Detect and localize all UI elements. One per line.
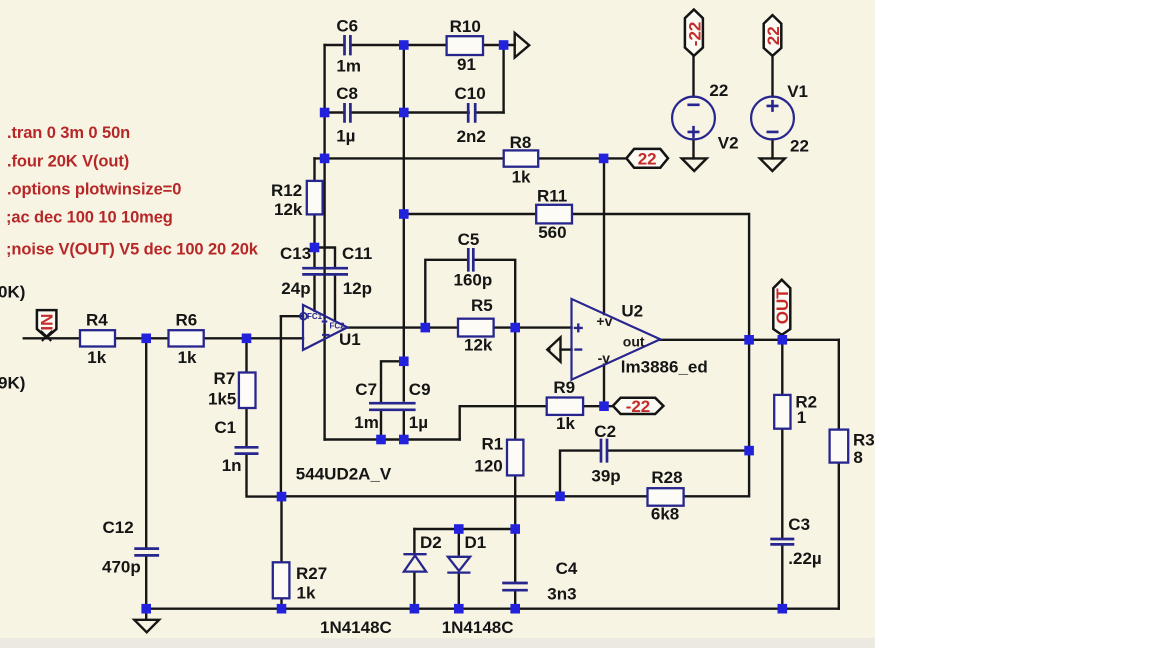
resistor R1 <box>507 440 523 476</box>
svg-text:1N4148C: 1N4148C <box>320 618 392 637</box>
capacitor C6 <box>345 35 351 55</box>
svg-text:C11: C11 <box>342 244 372 263</box>
junction bottom rail D2 <box>410 604 420 614</box>
svg-text:-v: -v <box>598 350 611 366</box>
wire D1 top stub <box>458 529 460 554</box>
net flag -22 above V2 <box>685 10 703 56</box>
svg-text:120: 120 <box>474 457 502 476</box>
wire top rail C6 left <box>325 44 345 46</box>
svg-text:R1: R1 <box>482 434 504 453</box>
wire R2 top stub <box>781 340 783 395</box>
wire elbow junction to C11 top <box>315 248 336 267</box>
svg-text:R4: R4 <box>86 311 108 330</box>
svg-text:12k: 12k <box>274 200 303 219</box>
ground bottom left <box>134 620 159 633</box>
svg-text:R7: R7 <box>214 369 236 388</box>
wire R9 right to flag <box>583 405 613 407</box>
svg-text:C5: C5 <box>458 230 480 249</box>
op-amp U1 544UD2A_V triangle <box>303 305 347 350</box>
svg-text:D2: D2 <box>420 533 442 552</box>
svg-text:U2: U2 <box>621 302 643 321</box>
capacitor C1 <box>235 447 259 453</box>
wire input to R4 <box>24 337 80 339</box>
junction C1 R27 feedback <box>277 492 287 502</box>
op-amp U2 lm3886_ed triangle <box>572 299 661 380</box>
wire U2 minus input stub <box>561 348 572 350</box>
capacitor C4 <box>502 583 528 590</box>
wire R5 to U2 plus input <box>493 326 571 328</box>
wire U1 upper input stub <box>281 315 303 317</box>
junction bottom rail C12 <box>141 604 151 614</box>
junction U1 out C5 left <box>421 323 431 333</box>
svg-text:R28: R28 <box>651 468 682 487</box>
arrow net marker right of R10 <box>515 33 530 58</box>
svg-text:160p: 160p <box>454 270 493 289</box>
junction R12 bottom C13 C11 <box>310 243 320 253</box>
junction C8 right <box>399 108 409 118</box>
wire R7 top stub <box>245 338 247 372</box>
junction bottom rail R27 <box>277 604 287 614</box>
wire R8 left segment <box>315 157 504 159</box>
svg-text:OUT: OUT <box>773 288 792 325</box>
wire R7 to C1 <box>245 408 247 447</box>
svg-text:R12: R12 <box>271 181 302 200</box>
wire diode top rail y=529 <box>414 528 515 530</box>
diode D1 1N4148C pointing down <box>448 557 470 571</box>
wire bottom bracket y=439.5 <box>325 438 460 440</box>
svg-text:D1: D1 <box>465 533 487 552</box>
wire C12 bottom lead <box>145 556 147 609</box>
wire elbow C10 right up <box>502 45 504 113</box>
wire C11 bottom lead <box>334 276 336 321</box>
junction C2 right R28 <box>744 446 754 456</box>
capacitor C9 <box>393 403 416 410</box>
svg-text:out: out <box>623 333 645 349</box>
wire R6 to U1 lower input <box>204 337 303 339</box>
svg-text:1: 1 <box>797 408 806 427</box>
svg-text:C6: C6 <box>336 16 358 35</box>
svg-text:22: 22 <box>764 26 783 45</box>
capacitor C7 <box>369 403 393 410</box>
svg-text:39p: 39p <box>591 467 620 486</box>
svg-text:IN: IN <box>37 314 56 331</box>
net flag IN <box>37 310 57 337</box>
svg-text:C1: C1 <box>214 418 236 437</box>
wire C5 left bracket <box>425 260 467 328</box>
junction R5 right C5 R1 <box>510 323 520 333</box>
wire R12 top stub <box>313 158 315 181</box>
wire U2 output <box>660 339 839 341</box>
svg-text:1µ: 1µ <box>336 127 355 146</box>
svg-text:C13: C13 <box>280 244 311 263</box>
wire C5 right bracket <box>474 260 515 328</box>
svg-text:V1: V1 <box>787 82 808 101</box>
wire C7 top elbow <box>381 361 404 402</box>
svg-text:.22µ: .22µ <box>788 549 821 568</box>
wire D2 bottom lead <box>413 572 415 609</box>
junction bottom rail D1 <box>454 604 464 614</box>
svg-text:R11: R11 <box>537 186 567 205</box>
junction C7 C9 top <box>399 357 409 367</box>
svg-text:R27: R27 <box>296 564 327 583</box>
svg-text:U1: U1 <box>339 330 361 349</box>
svg-text:R9: R9 <box>553 378 575 397</box>
svg-text:1k: 1k <box>87 348 106 367</box>
wire right rail below R3 <box>838 463 840 609</box>
capacitor C3 <box>770 539 794 544</box>
svg-text:1k5: 1k5 <box>208 389 236 408</box>
svg-text:-22: -22 <box>626 397 651 416</box>
ground below V2 <box>682 158 707 171</box>
wire right rail above R3 <box>838 340 840 430</box>
svg-text:C12: C12 <box>103 518 134 537</box>
wire C4 bottom lead <box>514 591 516 609</box>
wire D2 top stub <box>413 529 415 554</box>
junction -v R9 flag <box>599 401 609 411</box>
resistor R9 <box>547 398 583 415</box>
capacitor C10 <box>468 103 475 123</box>
svg-text:470p: 470p <box>102 558 141 577</box>
svg-text:C8: C8 <box>336 84 358 103</box>
wire elbow up to R9 line <box>460 406 547 439</box>
svg-text:22: 22 <box>638 149 657 168</box>
svg-text:22: 22 <box>709 81 728 100</box>
wire C8 to C10 <box>351 111 469 113</box>
svg-text:1N4148C: 1N4148C <box>442 618 514 637</box>
wire U2 +v supply vertical <box>603 158 605 314</box>
wire R4 to R6 <box>115 337 169 339</box>
capacitor C12 <box>134 549 159 556</box>
capacitor C8 <box>345 103 351 123</box>
junction C2 left R28 left <box>555 492 565 502</box>
resistor R8 <box>504 150 539 166</box>
net flag OUT <box>773 280 790 335</box>
resistor R11 <box>536 205 572 224</box>
resistor R7 <box>239 373 256 409</box>
resistor R27 <box>273 562 290 598</box>
svg-text:1k: 1k <box>512 168 531 187</box>
svg-text:C7: C7 <box>355 380 377 399</box>
svg-text:22: 22 <box>790 137 809 156</box>
svg-text:;ac dec 100 10 10meg: ;ac dec 100 10 10meg <box>6 208 173 226</box>
svg-text:544UD2A_V: 544UD2A_V <box>296 465 392 484</box>
wire C1 bottom elbow <box>247 455 282 497</box>
resistor R6 <box>169 330 204 346</box>
wire C8 left <box>325 111 345 113</box>
wire R1 bottom to C4 <box>514 475 516 582</box>
svg-text:;noise V(OUT) V5 dec 100 20 20: ;noise V(OUT) V5 dec 100 20 20k <box>6 240 259 258</box>
wire R27 bottom lead <box>280 598 282 608</box>
wire ground stub bottom left <box>145 609 147 620</box>
svg-text:3n3: 3n3 <box>547 585 576 604</box>
wire U2 -v vertical <box>603 365 605 407</box>
svg-text:91: 91 <box>457 55 476 74</box>
wire V1 flag lead <box>771 56 773 97</box>
wire C7 bottom lead <box>380 411 382 439</box>
svg-text:12p: 12p <box>343 279 372 298</box>
wire C2 right <box>608 449 749 451</box>
svg-text:V2: V2 <box>718 134 739 153</box>
junction C6-right x403 <box>399 40 409 50</box>
wire R2 to C3 <box>781 429 783 538</box>
junction C9 bottom <box>399 435 409 445</box>
capacitor C11 <box>325 268 348 274</box>
svg-text:1m: 1m <box>354 413 379 432</box>
svg-text:12k: 12k <box>464 335 493 354</box>
wire bottom rail <box>146 608 839 610</box>
resistor R5 <box>458 319 494 337</box>
resistor R2 <box>774 395 790 429</box>
wire C13 bottom lead <box>313 276 315 311</box>
arrow marker at U2 inverting input <box>547 337 560 361</box>
wire R12 bottom to C13 <box>313 214 315 266</box>
svg-text:R5: R5 <box>471 296 493 315</box>
svg-text:2n2: 2n2 <box>457 127 486 146</box>
junction bottom rail C4 <box>510 604 520 614</box>
resistor R4 <box>80 330 115 346</box>
wire U1 output to R5 <box>347 326 457 328</box>
voltage source V1 circle <box>751 97 794 140</box>
svg-text:FC1: FC1 <box>307 312 323 321</box>
junction R10-right C10 elbow <box>499 40 509 50</box>
wire R8 right to flag 22 <box>538 157 627 159</box>
wire long vertical x=324.6 <box>323 45 325 440</box>
junction bottom rail C3 <box>778 604 788 614</box>
svg-text:6k8: 6k8 <box>651 505 679 524</box>
svg-text:C2: C2 <box>594 422 616 441</box>
diode D2 1N4148C pointing up <box>403 553 426 555</box>
capacitor C13 <box>302 268 324 274</box>
junction D1 top <box>454 524 464 534</box>
wire R11 right elbow down <box>572 214 749 340</box>
svg-text:-22: -22 <box>686 22 705 47</box>
junction U2 out x749 <box>744 335 754 345</box>
svg-text:24p: 24p <box>281 279 310 298</box>
svg-text:C10: C10 <box>455 84 486 103</box>
wire C2 left elbow <box>560 451 600 497</box>
resistor R3 <box>830 430 849 463</box>
svg-text:lm3886_ed: lm3886_ed <box>621 358 708 377</box>
voltage source V2 circle <box>672 97 715 140</box>
resistor R10 <box>447 36 483 55</box>
svg-text:FC2: FC2 <box>330 322 346 331</box>
wire R28 right elbow up <box>684 451 749 497</box>
svg-text:8: 8 <box>853 448 862 467</box>
junction C7 bottom <box>376 435 386 445</box>
svg-text:1m: 1m <box>336 57 361 76</box>
capacitor C5 <box>468 248 473 272</box>
wire C3 bottom <box>781 545 783 608</box>
svg-text:0K): 0K) <box>0 283 25 302</box>
svg-text:C9: C9 <box>409 380 431 399</box>
wire C6 to R10 <box>351 44 448 46</box>
wire C12 top long lead <box>145 338 147 548</box>
svg-text:9K): 9K) <box>0 374 25 393</box>
svg-text:C3: C3 <box>788 515 810 534</box>
svg-text:.options plotwinsize=0: .options plotwinsize=0 <box>7 180 181 198</box>
svg-text:560: 560 <box>538 223 566 242</box>
wire D1 bottom lead <box>458 574 460 609</box>
ground below V1 <box>760 158 785 171</box>
wire C9 bottom lead <box>403 411 405 439</box>
junction C8 left <box>320 108 330 118</box>
resistor R12 <box>307 181 323 215</box>
svg-text:R6: R6 <box>176 311 198 330</box>
svg-text:R10: R10 <box>450 17 481 36</box>
net flag 22 right of R8 <box>626 149 668 168</box>
svg-text:R3: R3 <box>853 430 875 449</box>
net flag -22 right of R9 <box>613 398 664 414</box>
capacitor C2 <box>601 439 607 463</box>
junction input R4-R6 <box>141 334 151 344</box>
junction R8 wire left <box>320 154 330 164</box>
junction R8 wire right at +v <box>599 154 609 164</box>
junction input R6 right <box>242 334 252 344</box>
wire R1 top lead <box>514 328 516 440</box>
wire R27 top lead <box>280 497 282 563</box>
net flag 22 above V1 <box>764 15 782 56</box>
svg-text:C4: C4 <box>556 559 578 578</box>
wire vertical x=403.8 <box>403 45 405 401</box>
svg-text:+v: +v <box>596 313 612 329</box>
svg-text:1k: 1k <box>178 348 197 367</box>
wire R11 left <box>404 213 536 215</box>
junction R11 left <box>399 209 409 219</box>
wire U1 feedback vertical x=280.9 <box>280 316 282 496</box>
wire x=749.1 output to C2 junction <box>748 340 750 451</box>
svg-text:.four 20K V(out): .four 20K V(out) <box>7 152 129 170</box>
wire V2 to ground <box>692 139 694 158</box>
svg-text:1k: 1k <box>297 584 316 603</box>
junction R1 bottom diode rail <box>510 524 520 534</box>
wire y=496 left of R28 <box>282 495 649 497</box>
svg-text:1µ: 1µ <box>409 413 428 432</box>
junction OUT flag R2 <box>778 335 788 345</box>
wire V2 flag lead <box>692 56 694 97</box>
svg-text:1n: 1n <box>222 456 242 475</box>
svg-text:.tran 0 3m 0 50n: .tran 0 3m 0 50n <box>7 124 130 142</box>
wire C10 right <box>476 111 504 113</box>
svg-text:R8: R8 <box>510 133 532 152</box>
resistor R28 <box>648 488 684 506</box>
svg-text:1k: 1k <box>556 414 575 433</box>
wire R10 to arrow <box>482 44 515 46</box>
wire V1 to ground <box>771 139 773 158</box>
